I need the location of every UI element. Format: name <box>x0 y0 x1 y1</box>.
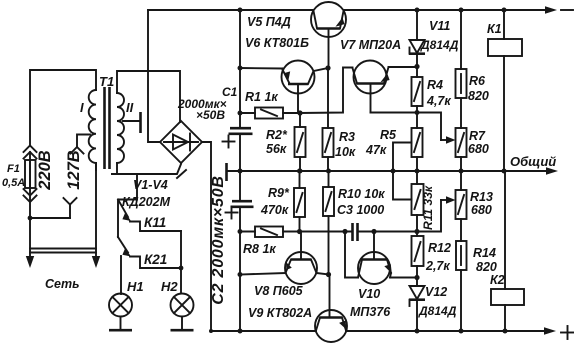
wire common middle rail <box>227 163 559 181</box>
svg-text:R11 33к: R11 33к <box>421 185 435 230</box>
capacitor C1 <box>223 128 253 147</box>
label R4 <box>426 78 451 108</box>
node junction dot top rail R6 <box>459 8 464 13</box>
wire base bus left <box>300 68 353 114</box>
svg-text:R3: R3 <box>339 130 355 144</box>
transistor V6 <box>282 61 329 114</box>
node junction dot lamps <box>179 266 184 271</box>
svg-text:МП376: МП376 <box>350 305 391 319</box>
node junction dot V10 collector <box>342 229 347 234</box>
node junction dot V7 emitter zener <box>414 64 419 69</box>
wire mains cord right with arrow <box>92 163 100 268</box>
transformer T1 primary winding I <box>89 90 96 163</box>
svg-text:К2: К2 <box>490 273 505 287</box>
wire to R13 wiper <box>417 200 441 232</box>
transistor V9 <box>315 275 347 343</box>
potentiometer R7 with wiper arrow <box>441 128 467 171</box>
wire secondary bottom lead <box>112 163 117 174</box>
svg-text:680: 680 <box>471 203 492 217</box>
wire bottom rail left segment <box>211 330 316 332</box>
resistor R10 <box>323 171 334 275</box>
node junction dot R11 R12 <box>414 229 419 234</box>
wire mains cord left with arrow <box>26 218 34 268</box>
wire V10 emitter <box>390 277 417 279</box>
zener diode V12 <box>409 278 425 332</box>
relay coil K1 <box>488 10 522 171</box>
svg-text:680: 680 <box>468 142 489 156</box>
node corner dot bottom rail left <box>209 329 213 333</box>
node junction dot middle rail C <box>238 169 243 174</box>
wire top rail left segment <box>148 9 313 11</box>
mains selector chevrons 220V <box>24 146 37 159</box>
label R3 <box>335 130 356 159</box>
node junction dot top rail V11 <box>415 8 420 13</box>
wire lower base bus <box>300 231 353 233</box>
potentiometer R5 <box>393 113 423 172</box>
relay coil K2 <box>491 171 524 331</box>
svg-text:V12: V12 <box>425 285 447 299</box>
resistor R3 <box>323 68 334 171</box>
label R9 <box>260 186 290 217</box>
svg-text:820: 820 <box>468 89 489 103</box>
transistor V7 <box>353 61 390 113</box>
svg-text:470к: 470к <box>260 203 289 217</box>
node junction dot V8 emitter <box>238 272 243 277</box>
wire V7 emitter to zener node <box>389 66 418 68</box>
svg-text:R7: R7 <box>469 129 486 143</box>
svg-text:220В: 220В <box>36 150 54 191</box>
svg-text:Сеть: Сеть <box>45 277 80 291</box>
svg-text:V9 КТ802А: V9 КТ802А <box>248 306 312 320</box>
svg-text:V6 КТ801Б: V6 КТ801Б <box>245 36 309 50</box>
svg-text:0,5A: 0,5A <box>2 177 25 189</box>
svg-text:4,7к: 4,7к <box>426 94 451 108</box>
transistor V8 <box>240 232 329 285</box>
resistor R12 <box>412 232 424 278</box>
node junction dot R10 rail <box>326 169 331 174</box>
node junction dot bottom rail V12 <box>415 329 420 334</box>
svg-text:56к: 56к <box>266 142 287 156</box>
svg-text:R12: R12 <box>428 241 451 255</box>
wire V10 collector <box>345 232 358 278</box>
svg-text:К1: К1 <box>487 22 502 36</box>
fuse F1 label <box>2 163 25 189</box>
svg-text:К21: К21 <box>144 252 167 267</box>
svg-text:V7 МП20А: V7 МП20А <box>340 38 401 52</box>
mains 127V plug chevron <box>64 198 77 218</box>
zener diode V11 <box>409 10 425 67</box>
potentiometer R13 with wiper arrow <box>441 171 467 219</box>
wire from top rail to bridge left <box>148 10 160 142</box>
node junction dot V10 emitter V12 <box>414 275 419 280</box>
node junction dot bottom rail R14 <box>459 329 464 334</box>
svg-text:V10: V10 <box>358 287 380 301</box>
transistor V10 <box>358 232 392 285</box>
label R6 <box>468 74 489 103</box>
svg-text:R1 1к: R1 1к <box>245 90 278 104</box>
resistor R4 <box>412 67 423 113</box>
node junction dot bottom rail K2 <box>503 329 508 334</box>
node junction dot V6 emitter <box>238 66 243 71</box>
wire relay contacts common feed <box>118 174 137 237</box>
node junction dot R1 left <box>238 111 243 116</box>
svg-text:R6: R6 <box>469 74 486 88</box>
svg-text:820: 820 <box>476 260 497 274</box>
svg-text:V11: V11 <box>429 19 450 33</box>
node junction dot top rail C1 <box>238 8 243 13</box>
label C1 value <box>177 85 238 122</box>
svg-text:С3 1000: С3 1000 <box>337 203 384 217</box>
wire base bus right <box>371 113 442 141</box>
bridge rectifier V1-V4 diamond <box>160 121 202 163</box>
wire bottom rail right segment with plus output <box>346 326 574 339</box>
svg-text:F1: F1 <box>7 163 20 175</box>
node junction dot R9 rail <box>297 169 302 174</box>
wire filter column mid <box>239 134 241 200</box>
label R14 <box>473 246 497 274</box>
wire bridge AC bottom feed <box>112 164 181 174</box>
svg-text:К11: К11 <box>144 215 166 230</box>
svg-text:Н2: Н2 <box>161 279 178 294</box>
fuse F1 <box>25 152 36 218</box>
svg-text:С2 2000мк×50В: С2 2000мк×50В <box>210 175 227 305</box>
svg-text:R14: R14 <box>473 246 496 260</box>
wire V6 emitter <box>240 67 282 70</box>
svg-text:V1-V4: V1-V4 <box>133 178 168 192</box>
node junction dot V5 base <box>325 65 330 70</box>
label R12 <box>425 241 451 273</box>
mains cord twin lines <box>30 249 96 253</box>
node junction dot V10 base <box>371 229 376 234</box>
mains selector chevrons below fuse <box>24 189 37 202</box>
secondary tap terminal bar <box>123 112 141 133</box>
node junction dot bottom rail C2 <box>238 329 243 334</box>
label R10 С3 <box>337 187 385 217</box>
wire lamp H2 feed <box>180 231 182 294</box>
resistor R8 <box>240 227 300 238</box>
svg-text:Т1: Т1 <box>99 74 114 89</box>
label V1-V4 КД202М with pointer <box>122 170 186 209</box>
wire secondary top lead to bridge <box>117 71 180 122</box>
bridge rectifier inner diode <box>164 134 198 151</box>
transformer tap 127V terminal chevron <box>71 135 91 154</box>
relay contact K21 <box>118 237 181 268</box>
svg-text:R9*: R9* <box>268 186 290 200</box>
svg-text:Общий: Общий <box>510 154 556 169</box>
svg-text:II: II <box>126 100 134 115</box>
svg-text:2,7к: 2,7к <box>425 259 450 273</box>
resistor R1 <box>240 108 300 119</box>
node junction dot R5 rail <box>415 169 420 174</box>
svg-text:127В: 127В <box>65 150 83 190</box>
lamp H1 <box>109 256 132 330</box>
wire filter column lower <box>239 207 241 331</box>
transformer T1 core <box>105 87 110 169</box>
wire bridge output right <box>202 142 211 331</box>
svg-text:I: I <box>80 100 84 115</box>
svg-text:R5: R5 <box>380 128 397 142</box>
svg-text:Д814Д: Д814Д <box>420 38 459 52</box>
resistor R2 <box>295 113 306 171</box>
capacitor C3 <box>353 223 418 241</box>
node junction dot R9 R8 V8 base <box>297 229 302 234</box>
label V10 МП376 <box>350 287 391 319</box>
wire top rail right segment with minus output <box>344 6 573 14</box>
resistor R9 <box>294 171 305 232</box>
svg-text:R8 1к: R8 1к <box>243 242 276 256</box>
label R13 <box>470 190 493 217</box>
relay contact K11 <box>118 200 181 232</box>
lamp H2 <box>171 294 194 331</box>
node junction dot R5 wiper rail <box>391 169 396 174</box>
wire primary bottom lead <box>95 163 97 170</box>
transistor V5 <box>311 2 346 68</box>
svg-text:R2*: R2* <box>266 128 288 142</box>
svg-text:V8 П605: V8 П605 <box>254 284 304 298</box>
svg-text:47к: 47к <box>365 143 387 157</box>
wire primary top lead to mains selector <box>30 70 96 146</box>
capacitor C2 <box>226 201 254 218</box>
potentiometer R11 <box>393 171 424 232</box>
svg-text:R10 10к: R10 10к <box>338 187 385 201</box>
node junction dot V9 base <box>326 272 331 277</box>
node junction dot R4 R5 <box>415 110 420 115</box>
svg-text:V5 П4Д: V5 П4Д <box>247 15 291 29</box>
node junction dot top rail K1 <box>502 8 507 13</box>
svg-text:R4: R4 <box>427 78 443 92</box>
label R5 <box>365 128 397 157</box>
label V12 <box>418 285 457 318</box>
svg-text:Н1: Н1 <box>127 279 144 294</box>
svg-text:КД202М: КД202М <box>122 195 171 209</box>
node junction dot R7 rail <box>459 169 464 174</box>
node junction dot R1 right V6 base <box>297 110 302 115</box>
resistor R14 <box>456 219 467 331</box>
node junction dot K rail <box>502 169 507 174</box>
svg-text:R13: R13 <box>470 190 493 204</box>
wire filter column upper <box>239 10 241 127</box>
svg-text:10к: 10к <box>335 145 356 159</box>
label R7 <box>468 129 489 156</box>
node junction dot R8 left <box>238 229 243 234</box>
wire mains link bar <box>30 217 70 219</box>
node junction dot R2 rail <box>298 169 303 174</box>
resistor R6 <box>456 10 467 128</box>
svg-text:×50В: ×50В <box>196 108 225 122</box>
label R2 <box>266 128 288 156</box>
transformer T1 secondary winding II <box>117 93 124 163</box>
svg-text:Д814Д: Д814Д <box>418 304 457 318</box>
node junction dot mains <box>28 216 33 221</box>
